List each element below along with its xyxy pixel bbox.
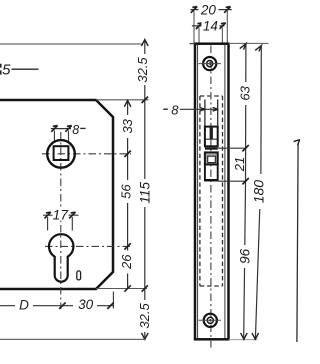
svg-text:30: 30 <box>78 297 94 312</box>
hidden lock case dashed left <box>199 96 201 286</box>
dimension 56 text <box>120 180 133 203</box>
hidden lock case dashed top <box>200 95 223 97</box>
deadbolt bottom edge <box>204 179 218 181</box>
spindle square hole <box>54 146 69 160</box>
dimension line column A <box>127 101 129 289</box>
tick at latch level <box>242 145 248 151</box>
hidden lock case dashed right <box>222 96 224 286</box>
right edge partial dimension line of next view <box>297 143 298 342</box>
dimension 20 text <box>199 2 219 16</box>
hidden lock case dashed bottom <box>200 285 223 287</box>
deadbolt head <box>205 152 218 164</box>
case top edge extension to dimension lines <box>96 99 149 101</box>
latch cutout band <box>205 147 218 149</box>
dimension line column B <box>144 40 146 340</box>
svg-text:17: 17 <box>53 206 70 222</box>
latch bolt side lines above <box>204 100 206 128</box>
dimension 14 extension lines <box>198 28 200 44</box>
svg-text:26: 26 <box>119 254 134 270</box>
euro cylinder hole <box>49 234 73 282</box>
latch bolt inner line <box>206 138 218 140</box>
bottom screw hole <box>204 314 217 327</box>
svg-text:96: 96 <box>237 248 252 264</box>
svg-text:14: 14 <box>203 18 218 33</box>
dimension 32.5 bottom text <box>139 300 152 332</box>
tick at case top <box>142 97 148 103</box>
svg-text:63: 63 <box>237 85 252 100</box>
arrow at top of column D <box>255 46 261 52</box>
svg-text:5: 5 <box>2 61 11 78</box>
dimension 8 trailing dash <box>80 127 85 129</box>
tick at cylinder centre <box>59 303 65 309</box>
dimension 8 latch arrow left <box>200 108 206 112</box>
dimension 20 line <box>190 9 231 11</box>
small fixing slot <box>77 271 81 280</box>
latch level leader to dimension column <box>218 147 247 149</box>
dimension 14 tick right <box>219 23 225 29</box>
dimension 8 extension stubs <box>53 131 55 142</box>
faceplate centre line <box>210 46 212 349</box>
deadbolt body <box>205 165 218 181</box>
arrow up at faceplate top level <box>142 40 149 46</box>
dimension 20 tick right <box>224 7 230 13</box>
latch bolt head <box>205 127 218 147</box>
horizontal centre line through cylinder hole <box>45 245 131 247</box>
dimension 14 tick left <box>196 23 202 29</box>
dimension 115 text <box>139 179 152 207</box>
svg-text:8: 8 <box>72 123 79 137</box>
extension line top-left (faceplate top edge extended left) <box>0 43 143 45</box>
tick at cylinder level <box>124 243 130 249</box>
dimension 96 text <box>239 245 252 268</box>
dimension 17 text <box>53 207 69 221</box>
faceplate top edge extension right <box>229 42 269 44</box>
top screw hole centre line <box>199 63 221 65</box>
case right edge extension down <box>112 292 114 309</box>
dimension 8 latch leader <box>180 108 219 110</box>
dimension 8 tick left <box>51 126 57 132</box>
dimension line column C <box>244 44 246 339</box>
svg-text:21: 21 <box>232 157 247 172</box>
svg-text:115: 115 <box>138 182 153 204</box>
arrow up at case top <box>124 100 131 106</box>
svg-text:32.5: 32.5 <box>135 57 150 83</box>
dimension 8 tick right <box>65 126 71 132</box>
dimension 30 text <box>73 298 97 312</box>
svg-text:32.5: 32.5 <box>137 302 152 328</box>
svg-text:8: 8 <box>171 103 179 118</box>
faceplate top edge left overhang <box>190 43 196 45</box>
extension line bottom (faceplate bottom edge extended left) <box>0 338 146 340</box>
tick at case bottom <box>142 285 148 291</box>
bottom screw hole centre line <box>199 319 221 321</box>
dimension 63 text <box>239 82 252 105</box>
tick at case edge <box>107 303 113 309</box>
dimension 32.5 top text <box>137 54 150 85</box>
label fragment "..5" leader at left edge <box>12 68 39 70</box>
faceplate outline (right view) <box>195 44 229 340</box>
faceplate inner edge line right <box>224 45 226 339</box>
right edge arrow <box>294 140 300 146</box>
top screw hole <box>203 57 216 70</box>
dimension 8 latch arrow right <box>213 108 219 112</box>
horizontal centre line through spindle hole <box>42 153 131 155</box>
tick at case bottom <box>124 285 130 291</box>
dimension 8 (spindle square) line <box>51 128 71 130</box>
dimension line column D 180 <box>255 46 261 339</box>
dimension 17 tick left <box>44 212 50 218</box>
label fragment digit stub at image edge <box>0 64 2 75</box>
svg-text:D: D <box>19 298 29 313</box>
spindle follower circle <box>47 140 75 168</box>
dimension 17 (cylinder) line <box>43 214 79 216</box>
dimension 17 tick right <box>69 212 75 218</box>
deadbolt head inner recess <box>208 156 216 162</box>
dimension 8 latch minus sign <box>163 108 168 110</box>
faceplate bottom edge extension right <box>229 339 258 341</box>
dimension 33 text <box>121 115 134 138</box>
dimension 26 text <box>120 251 133 274</box>
dimension 14 text <box>202 19 220 33</box>
svg-text:20: 20 <box>200 2 217 17</box>
latch bolt bevel band <box>210 128 213 139</box>
svg-text:180: 180 <box>250 180 266 204</box>
dimension 17 extension stubs <box>47 217 49 231</box>
dimension 14 line <box>192 25 225 27</box>
tick at spindle level <box>124 151 130 157</box>
svg-text:56: 56 <box>119 184 134 199</box>
arrow at bottom of column D <box>252 333 259 339</box>
tick at bolt bottom level <box>242 178 248 184</box>
dimension D 30 line <box>0 305 114 307</box>
dimension 180 text <box>252 174 266 209</box>
arrow at top of column C <box>240 44 246 50</box>
dimension D text <box>15 298 33 312</box>
arrow at bottom of column C <box>241 333 248 339</box>
arrow down at faceplate bottom level <box>142 333 149 339</box>
bolt bottom leader to dimension column <box>218 180 246 182</box>
dimension 20 tick left <box>191 7 197 13</box>
vertical centre line of case holes <box>60 132 62 309</box>
svg-text:33: 33 <box>120 118 135 133</box>
lock case outline (left view) <box>0 100 113 289</box>
faceplate inner edge line left <box>197 45 199 339</box>
case bottom edge extension to dimension lines <box>96 288 147 290</box>
dimension 20 extension lines <box>193 11 195 43</box>
